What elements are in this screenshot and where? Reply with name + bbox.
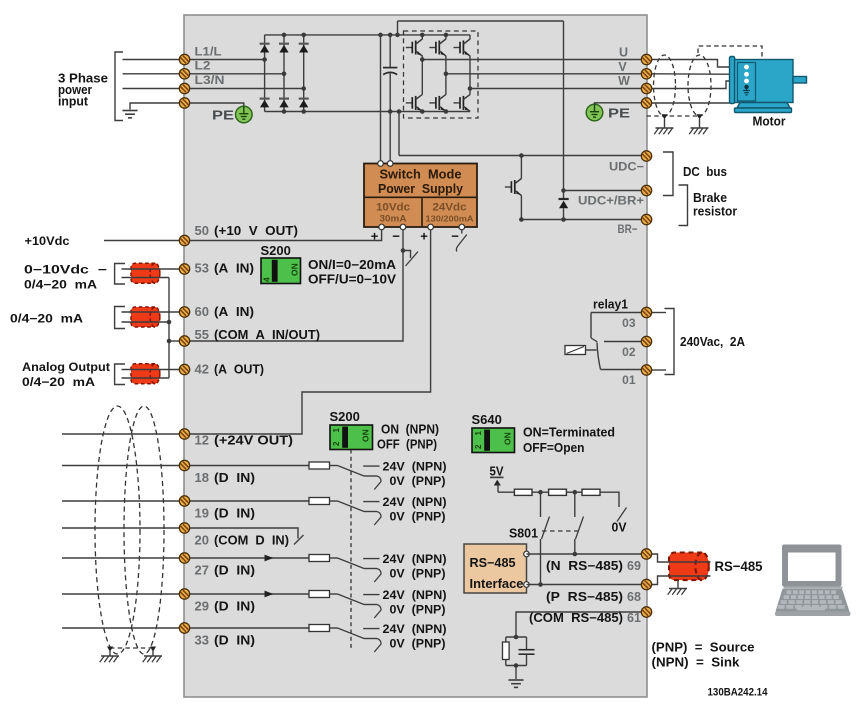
wire UDC+/BR+ horizontal [564, 190, 642, 192]
PE symbol left [236, 106, 253, 123]
wire 68 to ferrite [652, 576, 669, 585]
diode D3 (upper) [299, 44, 309, 53]
motor cable shield ellipse 1 [654, 55, 676, 116]
wire 69 to ferrite [652, 554, 669, 562]
svg-text:ON: ON [290, 263, 300, 276]
svg-text:0/4−20 mA: 0/4−20 mA [10, 312, 83, 326]
wire L1 input [123, 59, 185, 61]
svg-text:ON/I=0−20mA: ON/I=0−20mA [308, 258, 396, 272]
svg-text:18: 18 [195, 470, 209, 485]
wire PE to PE symbol [185, 103, 244, 106]
shield drain 1 [662, 114, 668, 119]
svg-text:0V: 0V [612, 521, 628, 535]
diode D5 (lower) [279, 99, 289, 108]
wire L3 input [123, 88, 185, 90]
ferrite sleeve RS-485 [669, 553, 709, 581]
RC termination network [514, 635, 519, 640]
wire phase U output [422, 59, 641, 61]
wire BR- horizontal [521, 219, 641, 221]
terminals 50,53,60,55,42,12,18,19,20,27,29,33 [179, 235, 189, 245]
svg-text:RS−485: RS−485 [470, 556, 516, 570]
ferrite pass wires [669, 561, 711, 563]
svg-text:UDC−: UDC− [609, 160, 644, 174]
svg-text:1: 1 [474, 431, 483, 436]
24V stub 33 [363, 628, 379, 630]
svg-text:BR−: BR− [618, 222, 638, 236]
wire UDC- riser [398, 112, 400, 156]
input bracket [115, 52, 123, 121]
svg-text:130BA242.14: 130BA242.14 [708, 687, 769, 699]
node inverter bus taps [420, 33, 425, 38]
svg-text:S801: S801 [509, 527, 538, 541]
svg-text:24V (NPN): 24V (NPN) [383, 622, 447, 636]
diode D7 (brake) [559, 198, 569, 200]
resistor R27 [309, 555, 330, 562]
wire PE to motor [652, 87, 744, 103]
svg-text:OFF/U=0−10V: OFF/U=0−10V [308, 273, 397, 287]
svg-text:(N RS−485): (N RS−485) [546, 559, 623, 573]
RC bottom rail [506, 665, 527, 667]
transistor Q7 (brake IGBT) [505, 178, 522, 195]
rectifier leg 3 vertical [303, 35, 305, 112]
svg-text:24V (NPN): 24V (NPN) [383, 460, 447, 474]
0V stub 33 [364, 638, 377, 640]
wire +10V to terminal 50 [185, 230, 382, 241]
24V stub 29 [363, 594, 379, 596]
svg-text:+: + [420, 229, 428, 244]
node bottom bus junctions [282, 109, 287, 114]
wire terminal 29 internal [185, 593, 310, 595]
IGBT lower U [406, 94, 423, 111]
wire DC+ drop to UDC+/BR+ [563, 21, 565, 199]
svg-text:24Vdc: 24Vdc [433, 202, 467, 214]
svg-text:20: 20 [195, 533, 209, 548]
svg-text:resistor: resistor [693, 205, 737, 219]
svg-text:0V (PNP): 0V (PNP) [390, 474, 446, 488]
contact 10V common disconnect [403, 251, 411, 259]
svg-text:01: 01 [622, 373, 636, 387]
svg-text:S200: S200 [330, 409, 360, 424]
24V stub 19 [363, 501, 379, 503]
ferrite sleeve A2 [131, 307, 160, 327]
relay NC post [590, 313, 592, 339]
svg-text:24V (NPN): 24V (NPN) [383, 552, 447, 566]
5V supply symbol [490, 476, 504, 478]
svg-text:02: 02 [622, 345, 636, 359]
inverter dashed module outline [404, 31, 479, 118]
wire 53 lower to common [122, 277, 170, 279]
terminal L2 [179, 69, 189, 79]
svg-text:(COM A IN/OUT): (COM A IN/OUT) [214, 327, 320, 342]
svg-text:0/4−20 mA: 0/4−20 mA [24, 278, 97, 292]
svg-text:53: 53 [195, 261, 209, 276]
svg-text:0V (PNP): 0V (PNP) [390, 567, 446, 581]
svg-text:10Vdc: 10Vdc [376, 202, 410, 214]
interface output nodes [524, 551, 530, 557]
wire DC link left rail to SMPS [380, 35, 382, 164]
svg-text:+: + [371, 229, 379, 244]
svg-text:DC bus: DC bus [683, 165, 727, 179]
arrow 27 [265, 555, 274, 562]
relay coil K1 [565, 346, 586, 355]
drive enclosure (gray box) [184, 15, 647, 697]
svg-text:5V: 5V [490, 465, 505, 479]
svg-text:68: 68 [627, 590, 641, 604]
wire rail 1-2 [532, 491, 549, 493]
node phase 1 [262, 57, 267, 62]
switch S801 leg A [540, 492, 542, 517]
node analog common taps [167, 320, 172, 325]
switch S200 digital [330, 425, 373, 450]
svg-text:Power Supply: Power Supply [378, 182, 463, 196]
shield bond dashed link [647, 115, 700, 117]
wire +10Vdc external [104, 240, 185, 242]
svg-text:(D IN): (D IN) [214, 563, 255, 578]
motor M1 [730, 57, 807, 113]
wire common to terminal 55 [169, 340, 185, 342]
switch S801 leg B [574, 492, 576, 517]
svg-text:+10Vdc: +10Vdc [25, 234, 70, 248]
svg-text:4: 4 [262, 277, 272, 282]
SMPS output nodes [379, 224, 385, 230]
svg-text:50: 50 [195, 223, 209, 238]
svg-text:0V (PNP): 0V (PNP) [390, 637, 446, 651]
wire 42 lower to common [122, 377, 170, 379]
node pull-up A [538, 490, 543, 495]
capacitor Ct [526, 637, 528, 650]
0V stub 18 [364, 475, 377, 477]
diode D6 (lower) [299, 99, 309, 108]
wire L3 to rectifier [185, 88, 304, 90]
control cable shield ellipse 1 [95, 406, 140, 654]
control shield bond dashed link [110, 647, 153, 649]
switch arm 27 [338, 558, 365, 569]
svg-text:(COM RS−485): (COM RS−485) [529, 611, 623, 625]
control cable shield ellipse 2 [124, 406, 164, 654]
rectifier leg 1 vertical [264, 35, 266, 112]
svg-text:(+10 V OUT): (+10 V OUT) [214, 223, 298, 238]
svg-text:S200: S200 [261, 243, 291, 258]
svg-text:24V (NPN): 24V (NPN) [383, 588, 447, 602]
IGBT lower W [454, 94, 471, 111]
wire terminal 29 external [62, 593, 185, 595]
wire relay 02 [604, 341, 642, 343]
wire COM RS-485 to terminal 61 [516, 612, 642, 637]
svg-text:Analog Output: Analog Output [22, 360, 110, 374]
diode D1 (upper) [260, 44, 270, 53]
svg-text:input: input [58, 95, 89, 109]
svg-text:ON (NPN): ON (NPN) [381, 423, 439, 437]
DC bus bracket [663, 152, 673, 196]
0V stub 19 [364, 511, 377, 513]
wire terminal 19 external [62, 500, 185, 502]
wire 60 upper [122, 311, 185, 313]
svg-text:2: 2 [474, 444, 483, 449]
wire top loop riser [397, 21, 399, 35]
node phase W [468, 86, 473, 91]
wire terminal 20 external [62, 527, 185, 529]
contact 0V [617, 508, 627, 522]
svg-text:1: 1 [332, 428, 341, 433]
svg-text:ON=Terminated: ON=Terminated [523, 426, 615, 440]
svg-text:(+24V OUT): (+24V OUT) [214, 433, 293, 448]
arrow 29 [265, 591, 274, 598]
svg-text:27: 27 [195, 563, 209, 578]
wire analog common vertical [168, 278, 170, 379]
wire terminal 12 external [62, 433, 185, 435]
svg-text:Interface: Interface [470, 577, 524, 591]
IGBT lower V [429, 94, 446, 111]
control shield drain 1 [107, 647, 113, 652]
resistor Rt [505, 637, 507, 642]
contact 20 common [294, 535, 304, 545]
PE symbol right [586, 104, 603, 121]
resistor R19 [309, 498, 330, 505]
wire L1 to rectifier [185, 59, 265, 61]
wire 10V common to terminal 55 [185, 230, 404, 341]
resistor R29 [309, 591, 330, 598]
svg-text:0V (PNP): 0V (PNP) [390, 603, 446, 617]
relay bracket [665, 309, 675, 375]
svg-text:33: 33 [195, 633, 209, 648]
svg-text:ON: ON [503, 432, 513, 445]
wire U to motor [652, 60, 744, 68]
wire terminal 27 internal [185, 557, 310, 559]
svg-text:L1/L: L1/L [195, 45, 222, 59]
S200 digital select dashed line [350, 450, 352, 650]
svg-text:relay1: relay1 [593, 298, 628, 312]
wire rail 2-3 [566, 491, 582, 493]
contact 24V common disconnect [461, 230, 463, 234]
terminal L3/N [179, 83, 189, 93]
wire terminal 20 internal [185, 528, 299, 539]
diode D4 (lower) [260, 99, 270, 108]
wire diode to BR- bus [563, 208, 565, 219]
wire terminal 27 external [62, 557, 185, 559]
svg-text:Brake: Brake [693, 191, 727, 205]
0V stub 27 [364, 568, 377, 570]
svg-text:240Vac, 2A: 240Vac, 2A [680, 335, 745, 349]
svg-text:60: 60 [195, 304, 209, 319]
svg-text:0−10Vdc −: 0−10Vdc − [24, 263, 107, 277]
shield bracket A1 [115, 264, 125, 285]
svg-text:L3/N: L3/N [195, 73, 225, 87]
svg-text:−: − [392, 229, 400, 244]
node top bus junctions [282, 33, 287, 38]
svg-text:55: 55 [195, 327, 209, 342]
rectifier leg 2 vertical [283, 35, 285, 112]
node phase V [444, 72, 449, 77]
svg-text:Switch Mode: Switch Mode [380, 167, 462, 181]
wire L2 to rectifier [185, 73, 285, 75]
wire 53 upper [122, 268, 185, 270]
svg-text:(D IN): (D IN) [214, 470, 255, 485]
wire P RS-485 to terminal 68 [527, 584, 642, 586]
svg-text:03: 03 [622, 316, 636, 330]
node bus taps [378, 33, 383, 38]
svg-text:(A IN): (A IN) [214, 304, 254, 319]
svg-text:UDC+/BR+: UDC+/BR+ [578, 194, 644, 208]
svg-text:0V (PNP): 0V (PNP) [390, 510, 446, 524]
svg-text:(COM D IN): (COM D IN) [214, 533, 289, 548]
node BR- diode junction [561, 217, 566, 222]
svg-text:29: 29 [195, 599, 209, 614]
diode D2 (upper) [279, 44, 289, 53]
wire W to motor [652, 81, 744, 89]
resistor Rp1 [514, 489, 532, 495]
svg-text:ON: ON [361, 429, 371, 442]
IGBT upper U [406, 39, 423, 56]
wire DC link cap rail upper [389, 35, 391, 68]
switch S640 [472, 428, 515, 453]
ferrite sleeve A1 [131, 263, 160, 283]
node brake collector [519, 153, 524, 158]
svg-text:69: 69 [627, 559, 641, 573]
relay armature [597, 343, 601, 370]
switch arm 19 [338, 501, 365, 512]
node UDC+/BR+ junction [561, 188, 566, 193]
relay terminal stubs [652, 312, 666, 314]
wire terminal 18 internal [185, 465, 310, 467]
svg-text:61: 61 [627, 611, 641, 625]
ground RC [515, 666, 517, 680]
wire UDC- horizontal [399, 155, 642, 157]
svg-text:(PNP) = Source: (PNP) = Source [652, 641, 755, 655]
24V stub 18 [363, 465, 379, 467]
0V stub 29 [364, 604, 377, 606]
switch mode power supply box [364, 164, 477, 228]
wire L2 input [123, 73, 185, 75]
svg-text:L2: L2 [195, 59, 211, 73]
wire relay 01 [601, 369, 642, 371]
IGBT upper W [454, 39, 471, 56]
node phase U [420, 57, 425, 62]
svg-text:−: − [451, 229, 459, 244]
svg-text:V: V [618, 60, 627, 74]
svg-text:30mA: 30mA [380, 214, 408, 224]
svg-text:2: 2 [332, 441, 341, 446]
svg-text:(D IN): (D IN) [214, 633, 255, 648]
ferrite ground [677, 580, 679, 588]
wire 60 lower to common [122, 321, 170, 323]
resistor R33 [309, 625, 330, 632]
wire phase V output [446, 73, 642, 75]
node brake emitter [519, 217, 524, 222]
svg-text:(A OUT): (A OUT) [214, 362, 264, 377]
wire N RS-485 to terminal 69 [527, 553, 642, 555]
laptop [775, 545, 851, 617]
shield drain 2 [697, 114, 703, 119]
wire terminal 33 internal [185, 627, 310, 629]
svg-text:RS−485: RS−485 [715, 558, 763, 574]
svg-text:(P RS−485): (P RS−485) [546, 590, 623, 604]
svg-text:Motor: Motor [753, 115, 786, 129]
switch arm 33 [338, 628, 365, 639]
wire relay coil lead [586, 349, 597, 351]
terminal L1/L [179, 54, 189, 64]
resistor Rp2 [549, 489, 567, 495]
svg-text:130/200mA: 130/200mA [426, 214, 474, 224]
svg-text:(NPN) = Sink: (NPN) = Sink [652, 656, 740, 670]
shield bracket A2 [115, 307, 125, 329]
DC+ bus (top) [265, 34, 470, 36]
wire 42 upper [122, 369, 185, 371]
svg-text:(D IN): (D IN) [214, 599, 255, 614]
ferrite sleeve A3 [131, 364, 160, 384]
svg-text:U: U [619, 46, 628, 60]
svg-text:W: W [618, 74, 630, 88]
terminals U,V,W,PE,UDC-,UDC+/BR+,BR-,03,02,01,69,68,61 [641, 54, 651, 64]
svg-text:S640: S640 [472, 412, 502, 427]
svg-text:OFF=Open: OFF=Open [523, 441, 585, 455]
switch arm 29 [338, 594, 365, 605]
switch arm 18 [338, 466, 365, 477]
wire rail to 0V contact [600, 492, 619, 507]
wire DC link cap rail lower to SMPS [389, 73, 391, 164]
wire +24V to terminal 12 [185, 230, 431, 434]
wire terminal 33 external [62, 627, 185, 629]
wire top loop horizontal [398, 20, 564, 22]
svg-text:24V (NPN): 24V (NPN) [383, 495, 447, 509]
svg-text:OFF (PNP): OFF (PNP) [377, 438, 437, 452]
node P RS-485 pull-up [538, 582, 543, 587]
capacitor C1 (DC link) [383, 67, 397, 69]
ground input earth [122, 111, 137, 118]
svg-text:(D IN): (D IN) [214, 506, 255, 521]
motor cable shield ellipse 2 [688, 55, 711, 116]
svg-text:0/4−20 mA: 0/4−20 mA [22, 375, 95, 389]
control shield drain 2 [150, 647, 156, 652]
wire terminal 18 external [62, 465, 185, 467]
svg-text:12: 12 [195, 433, 209, 448]
svg-text:42: 42 [195, 362, 209, 377]
SMPS input nodes [378, 161, 384, 167]
resistor Rp3 [582, 489, 600, 495]
brake resistor bracket [679, 185, 688, 226]
shield bracket A3 [115, 364, 125, 385]
node N RS-485 pull-up [573, 552, 578, 557]
wire terminal 19 internal [185, 500, 310, 502]
node pull-up B [573, 490, 578, 495]
terminal PE input [179, 98, 189, 108]
DC- bus (bottom) [265, 111, 470, 113]
RS-485 interface box [464, 544, 527, 593]
svg-text:(A IN): (A IN) [214, 261, 254, 276]
wire relay 03 [591, 312, 642, 314]
node phase 3 [301, 86, 306, 91]
IGBT upper V [429, 39, 446, 56]
wire pull-up rail [498, 491, 514, 493]
wire phase W output [470, 88, 642, 90]
wire PE input [130, 103, 185, 110]
S801 dashed link [542, 530, 579, 532]
node 10V common tap [401, 248, 406, 253]
resistor R18 [309, 462, 330, 469]
svg-text:PE: PE [608, 106, 630, 121]
svg-text:PE: PE [212, 108, 234, 123]
24V stub 27 [363, 558, 379, 560]
wire V to motor [652, 73, 744, 76]
shield to motor dashed bond [698, 46, 762, 58]
switch S200 analog [261, 258, 301, 284]
node phase 2 [282, 72, 287, 77]
svg-text:19: 19 [195, 506, 209, 521]
